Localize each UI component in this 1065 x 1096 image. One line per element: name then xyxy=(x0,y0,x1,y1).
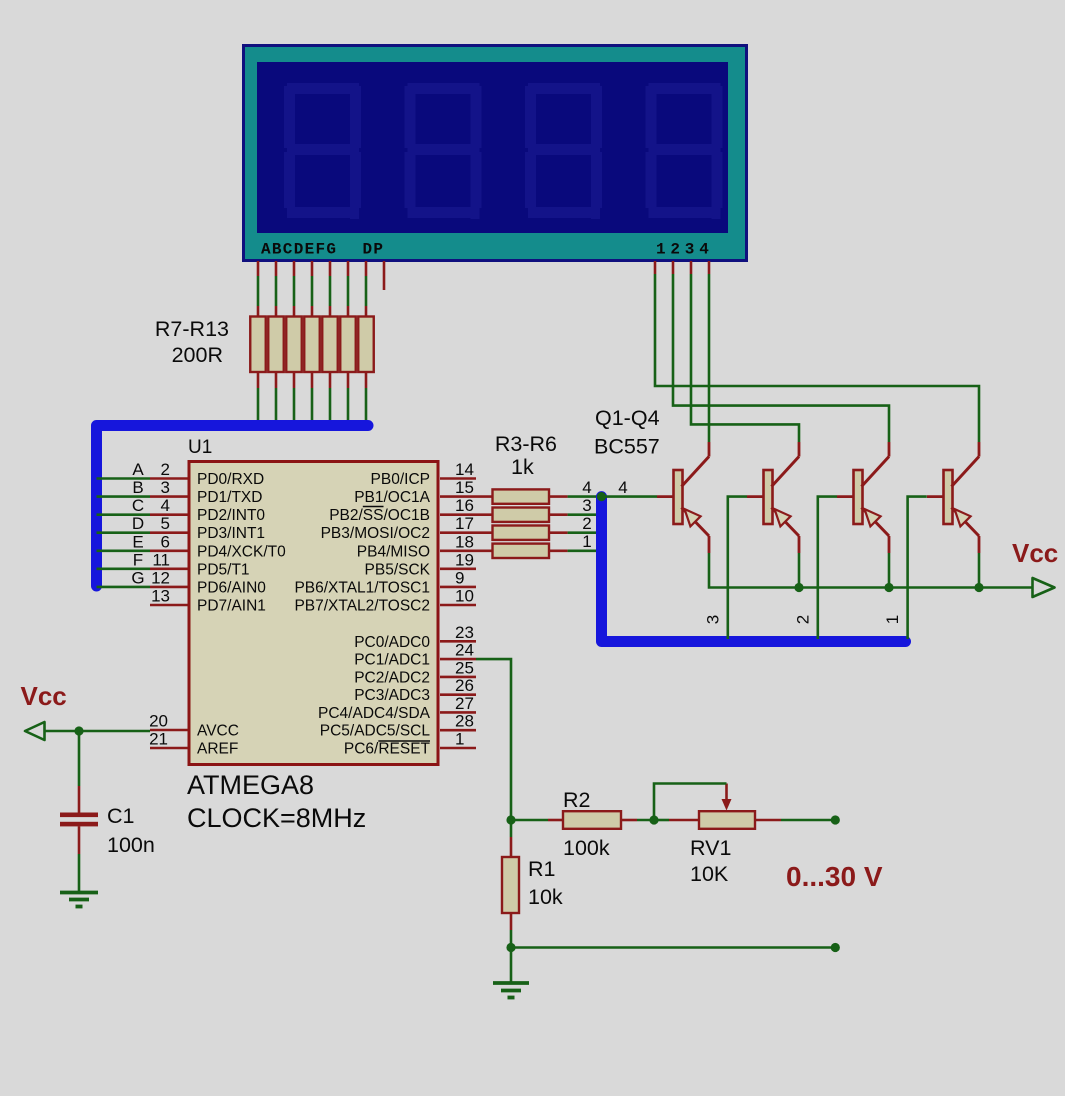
transistor Q1 BC557 xyxy=(657,442,709,553)
overline RESET on PC6 xyxy=(378,740,430,742)
wire Vcc to U1 AVCC xyxy=(45,730,151,733)
U1 pin 26 stub xyxy=(440,693,476,696)
wire U1 to resistor R3 xyxy=(476,495,493,498)
wire resistor R13 to bus xyxy=(365,372,368,388)
svg-text:0...30 V: 0...30 V xyxy=(786,861,883,892)
resistor R9 xyxy=(286,317,302,373)
wire display G to resistor R13 xyxy=(365,276,368,306)
display pin DP (unconnected stub) xyxy=(383,261,386,290)
RV1 wiper arrow xyxy=(725,784,728,803)
wire bus to U1 pin 11 (net F) xyxy=(97,567,151,570)
svg-text:C1: C1 xyxy=(107,804,134,828)
svg-text:2: 2 xyxy=(582,514,591,533)
junction Q4 emitter / Vcc rail xyxy=(974,583,983,592)
resistor R13 xyxy=(358,317,374,373)
svg-text:PB3/MOSI/OC2: PB3/MOSI/OC2 xyxy=(321,525,430,542)
svg-text:15: 15 xyxy=(455,478,474,497)
U1 pin 10 stub xyxy=(440,604,476,607)
svg-text:E: E xyxy=(132,532,143,551)
wire bus net 3 to Q2 base xyxy=(728,497,747,639)
display pin F xyxy=(347,261,350,276)
wire C1 top xyxy=(78,731,81,786)
ground (R1) xyxy=(493,981,529,985)
svg-text:PB0/ICP: PB0/ICP xyxy=(371,471,430,488)
wire bottom return rail xyxy=(511,946,835,949)
Vcc arrow right xyxy=(1033,578,1055,597)
svg-text:ABCDEFG: ABCDEFG xyxy=(261,241,337,259)
wire junction to R1 xyxy=(510,820,513,837)
display digit 1 segments xyxy=(284,83,361,219)
svg-text:25: 25 xyxy=(455,658,474,677)
junction divider top xyxy=(506,815,515,824)
wire Q3 emitter to Vcc rail xyxy=(888,553,891,588)
svg-text:1: 1 xyxy=(455,730,464,749)
svg-text:F: F xyxy=(133,550,143,569)
wire U1 to resistor R5 xyxy=(476,531,493,534)
junction Vcc / C1 xyxy=(74,726,83,735)
svg-text:28: 28 xyxy=(455,712,474,731)
svg-text:14: 14 xyxy=(455,460,474,479)
wire display pin 3 to Q2 collector xyxy=(691,274,799,442)
junction rail / ground xyxy=(506,943,515,952)
ground (C1) xyxy=(60,891,98,895)
svg-text:16: 16 xyxy=(455,496,474,515)
U1 pin 1 stub xyxy=(440,747,476,750)
svg-text:PD1/TXD: PD1/TXD xyxy=(197,489,262,506)
wire junction to RV1 xyxy=(654,819,669,822)
wire resistor R8 to bus xyxy=(275,372,278,388)
terminal - (0...30V) xyxy=(831,943,840,952)
wire Q4 emitter to Vcc rail xyxy=(978,553,981,588)
resistor R4 xyxy=(493,508,550,522)
resistor R7 xyxy=(250,317,266,373)
svg-text:18: 18 xyxy=(455,532,474,551)
wire resistor R12 to bus xyxy=(347,372,350,388)
bus: display segments to U1 port D xyxy=(97,426,369,587)
resistor R11 xyxy=(322,317,338,373)
svg-text:PD2/INT0: PD2/INT0 xyxy=(197,507,265,524)
U1 pin 18 stub xyxy=(440,549,476,552)
svg-text:D: D xyxy=(132,514,144,533)
resistor R8 xyxy=(268,317,284,373)
svg-text:U1: U1 xyxy=(188,437,212,458)
svg-text:R7-R13: R7-R13 xyxy=(155,317,229,341)
svg-text:PD6/AIN0: PD6/AIN0 xyxy=(197,579,266,596)
wire display F to resistor R12 xyxy=(347,276,350,306)
wire display C to resistor R9 xyxy=(293,276,296,306)
U1 pin 13 stub (PD7/AIN1) xyxy=(150,604,188,607)
U1 pin 25 stub xyxy=(440,676,476,679)
svg-text:100k: 100k xyxy=(563,836,610,860)
wire display pin 1 to Q4 collector xyxy=(655,274,979,442)
transistor Q3 BC557 xyxy=(837,442,889,553)
U1 pin 9 stub xyxy=(440,586,476,589)
resistor R6 xyxy=(493,544,550,558)
potentiometer RV1 body xyxy=(699,811,755,829)
wire display E to resistor R11 xyxy=(329,276,332,306)
svg-text:2: 2 xyxy=(793,615,812,624)
svg-text:13: 13 xyxy=(151,587,170,606)
svg-text:BC557: BC557 xyxy=(594,435,660,459)
svg-text:PC1/ADC1: PC1/ADC1 xyxy=(354,652,430,669)
display inner panel xyxy=(257,62,728,233)
svg-text:4: 4 xyxy=(161,496,170,515)
svg-text:PB4/MISO: PB4/MISO xyxy=(357,543,430,560)
transistor Q4 BC557 xyxy=(927,442,979,553)
svg-text:PB6/XTAL1/TOSC1: PB6/XTAL1/TOSC1 xyxy=(294,579,430,596)
display pin C xyxy=(293,261,296,276)
wire display B to resistor R8 xyxy=(275,276,278,306)
junction Q2 emitter / Vcc rail xyxy=(794,583,803,592)
svg-text:Vcc: Vcc xyxy=(21,681,67,711)
wire net 4 bus to Q1 base xyxy=(602,495,658,498)
svg-text:Q1-Q4: Q1-Q4 xyxy=(595,406,660,430)
svg-text:AVCC: AVCC xyxy=(197,723,239,740)
svg-text:23: 23 xyxy=(455,623,474,642)
display pin A xyxy=(257,261,260,276)
wire bus to U1 pin 6 (net E) xyxy=(97,549,151,552)
svg-text:PC5/ADC5/SCL: PC5/ADC5/SCL xyxy=(320,723,431,740)
svg-text:PB2/SS/OC1B: PB2/SS/OC1B xyxy=(329,507,430,524)
svg-text:C: C xyxy=(132,496,144,515)
svg-text:1k: 1k xyxy=(511,455,534,479)
svg-text:17: 17 xyxy=(455,514,474,533)
svg-text:RV1: RV1 xyxy=(690,836,731,860)
svg-text:19: 19 xyxy=(455,550,474,569)
bus: base drive nets 1-4 xyxy=(602,497,906,642)
svg-text:PB1/OC1A: PB1/OC1A xyxy=(354,489,430,506)
svg-text:R1: R1 xyxy=(528,857,555,881)
svg-text:6: 6 xyxy=(161,532,170,551)
svg-text:PC3/ADC3: PC3/ADC3 xyxy=(354,687,430,704)
display digit 3 segments xyxy=(525,83,602,219)
svg-text:PC2/ADC2: PC2/ADC2 xyxy=(354,669,430,686)
display pin G xyxy=(365,261,368,276)
svg-text:24: 24 xyxy=(455,641,474,660)
svg-text:PC4/ADC4/SDA: PC4/ADC4/SDA xyxy=(318,705,431,722)
svg-text:10k: 10k xyxy=(528,885,563,909)
wire bus net 2 to Q3 base xyxy=(818,497,837,639)
display pin B xyxy=(275,261,278,276)
svg-text:CLOCK=8MHz: CLOCK=8MHz xyxy=(187,803,366,833)
svg-text:Vcc: Vcc xyxy=(1012,538,1058,568)
junction Q3 emitter / Vcc rail xyxy=(884,583,893,592)
wire resistor R6 to bus xyxy=(549,549,568,552)
wire display pin 4 to Q1 collector xyxy=(708,274,711,442)
svg-text:26: 26 xyxy=(455,676,474,695)
U1 pin 28 stub xyxy=(440,729,476,732)
7-segment display module body xyxy=(244,46,747,261)
U1 pin 20 stub (AVCC) xyxy=(150,729,188,732)
svg-text:10: 10 xyxy=(455,587,474,606)
svg-text:3: 3 xyxy=(161,478,170,497)
svg-text:G: G xyxy=(131,568,144,587)
terminal + (0...30V) xyxy=(831,815,840,824)
svg-text:A: A xyxy=(132,460,144,479)
wire U1 to resistor R4 xyxy=(476,513,493,516)
wire resistor R4 to bus xyxy=(549,513,568,516)
wire RV1 right terminal xyxy=(755,819,781,822)
resistor R3 xyxy=(493,489,550,503)
svg-text:21: 21 xyxy=(149,730,168,749)
svg-text:PD5/T1: PD5/T1 xyxy=(197,561,250,578)
wire C1 bottom to ground xyxy=(78,826,81,854)
svg-text:1234: 1234 xyxy=(656,241,714,259)
svg-text:DP: DP xyxy=(363,241,385,259)
wire bus to U1 pin 5 (net D) xyxy=(97,531,151,534)
svg-text:11: 11 xyxy=(152,550,170,569)
U1 pin 16 stub xyxy=(440,513,476,516)
svg-text:4: 4 xyxy=(618,478,627,497)
svg-text:PD0/RXD: PD0/RXD xyxy=(197,471,264,488)
wire R2 to mid junction xyxy=(621,819,637,822)
U1 pin 27 stub xyxy=(440,711,476,714)
wire display D to resistor R10 xyxy=(311,276,314,306)
display digit 4 segments xyxy=(646,83,723,219)
U1 pin 23 stub xyxy=(440,640,476,643)
display digit 2 segments xyxy=(405,83,482,219)
overline SS on PB2 xyxy=(363,506,384,508)
svg-text:1: 1 xyxy=(883,615,902,624)
svg-text:4: 4 xyxy=(582,478,591,497)
wire resistor R5 to bus xyxy=(549,531,568,534)
svg-text:12: 12 xyxy=(151,568,170,587)
junction R2 / RV1 xyxy=(649,815,658,824)
svg-text:3: 3 xyxy=(582,496,591,515)
U1 pin 15 stub xyxy=(440,495,476,498)
wire Q1 emitter to Vcc rail xyxy=(709,553,1032,588)
svg-text:PD7/AIN1: PD7/AIN1 xyxy=(197,598,266,615)
Vcc arrow left xyxy=(25,722,45,740)
wire U1 to resistor R6 xyxy=(476,549,493,552)
wire R1 bottom xyxy=(510,913,513,930)
svg-text:R3-R6: R3-R6 xyxy=(495,432,557,456)
svg-text:R2: R2 xyxy=(563,788,590,812)
svg-text:PC0/ADC0: PC0/ADC0 xyxy=(354,634,430,651)
svg-text:200R: 200R xyxy=(172,343,223,367)
wire bus to U1 pin 3 (net B) xyxy=(97,495,151,498)
wire rail to ground xyxy=(510,948,513,982)
capacitor C1 xyxy=(60,813,98,818)
wire Q2 emitter to Vcc rail xyxy=(798,553,801,588)
wire U1 pin 24 (PC1/ADC1) to divider xyxy=(476,659,511,816)
resistor R2 xyxy=(563,811,621,829)
U1 pin 24 stub xyxy=(440,658,476,661)
svg-text:1: 1 xyxy=(582,532,591,551)
svg-text:PD4/XCK/T0: PD4/XCK/T0 xyxy=(197,543,286,560)
resistor R10 xyxy=(304,317,320,373)
svg-text:3: 3 xyxy=(703,615,722,624)
svg-text:PD3/INT1: PD3/INT1 xyxy=(197,525,265,542)
wire bus to U1 pin 12 (net G) xyxy=(97,586,151,589)
IC U1 ATMEGA8 body xyxy=(189,462,438,765)
svg-text:9: 9 xyxy=(455,568,464,587)
U1 pin 19 stub xyxy=(440,567,476,570)
wire bus net 1 to Q4 base xyxy=(908,497,927,639)
svg-text:PB7/XTAL2/TOSC2: PB7/XTAL2/TOSC2 xyxy=(294,598,430,615)
wire RV1 wiper to left terminal xyxy=(654,784,727,819)
wire resistor R11 to bus xyxy=(329,372,332,388)
U1 pin 14 stub xyxy=(440,477,476,480)
wire bus to U1 pin 4 (net C) xyxy=(97,513,151,516)
wire resistor R3 to bus xyxy=(549,495,568,498)
junction bus net 4 xyxy=(597,492,606,501)
wire resistor R9 to bus xyxy=(293,372,296,388)
display pin D xyxy=(311,261,314,276)
wire resistor R10 to bus xyxy=(311,372,314,388)
svg-text:PC6/RESET: PC6/RESET xyxy=(344,741,431,758)
resistor R1 xyxy=(502,857,519,913)
wire resistor R7 to bus xyxy=(257,372,260,388)
U1 pin 21 stub (AREF) xyxy=(150,747,188,750)
svg-text:B: B xyxy=(132,478,143,497)
display pin E xyxy=(329,261,332,276)
wire junction to R2 xyxy=(511,819,548,822)
svg-text:100n: 100n xyxy=(107,833,155,857)
svg-text:5: 5 xyxy=(161,514,170,533)
display common pin at x=691 xyxy=(690,261,693,274)
wire bus to U1 pin 2 (net A) xyxy=(97,477,151,480)
display common pin at x=673 xyxy=(672,261,675,274)
svg-text:20: 20 xyxy=(149,712,168,731)
svg-text:2: 2 xyxy=(161,460,170,479)
wire display A to resistor R7 xyxy=(257,276,260,306)
resistor R12 xyxy=(340,317,356,373)
svg-text:PB5/SCK: PB5/SCK xyxy=(365,561,431,578)
svg-text:AREF: AREF xyxy=(197,741,238,758)
display common pin at x=709 xyxy=(708,261,711,274)
U1 pin 17 stub xyxy=(440,531,476,534)
display common pin at x=655 xyxy=(654,261,657,274)
resistor R5 xyxy=(493,526,550,540)
transistor Q2 BC557 xyxy=(747,442,799,553)
svg-text:10K: 10K xyxy=(690,862,729,886)
svg-text:27: 27 xyxy=(455,694,474,713)
wire display pin 2 to Q3 collector xyxy=(673,274,889,442)
svg-text:ATMEGA8: ATMEGA8 xyxy=(187,770,314,800)
